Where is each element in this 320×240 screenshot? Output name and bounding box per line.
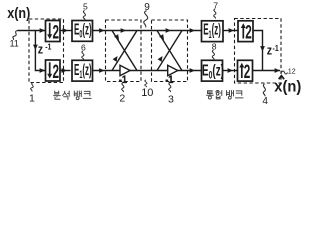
- svg-text:2: 2: [244, 62, 251, 82]
- svg-text:E0(z): E0(z): [202, 61, 224, 81]
- svg-text:6: 6: [81, 42, 86, 52]
- svg-text:E0(z): E0(z): [74, 20, 92, 40]
- svg-text:x(n): x(n): [274, 78, 301, 96]
- svg-text:z: z: [267, 42, 272, 57]
- svg-text:7: 7: [213, 0, 218, 10]
- svg-text:10: 10: [141, 87, 153, 99]
- svg-text:-1: -1: [119, 74, 128, 86]
- svg-text:E1(z): E1(z): [203, 21, 221, 41]
- svg-text:3: 3: [168, 93, 174, 105]
- svg-text:5: 5: [83, 1, 88, 11]
- svg-text:z: z: [38, 42, 43, 57]
- svg-text:-1: -1: [45, 42, 52, 52]
- svg-text:E1(z): E1(z): [74, 61, 92, 81]
- svg-text:4: 4: [262, 96, 268, 107]
- svg-text:2: 2: [119, 93, 125, 105]
- svg-text:x(n): x(n): [7, 4, 30, 21]
- svg-text:-1: -1: [273, 43, 280, 53]
- svg-text:2: 2: [53, 62, 60, 82]
- svg-text:2: 2: [245, 23, 252, 43]
- svg-text:12: 12: [288, 66, 296, 75]
- svg-text:1: 1: [29, 92, 35, 104]
- svg-text:2: 2: [53, 23, 60, 43]
- svg-text:11: 11: [10, 39, 19, 49]
